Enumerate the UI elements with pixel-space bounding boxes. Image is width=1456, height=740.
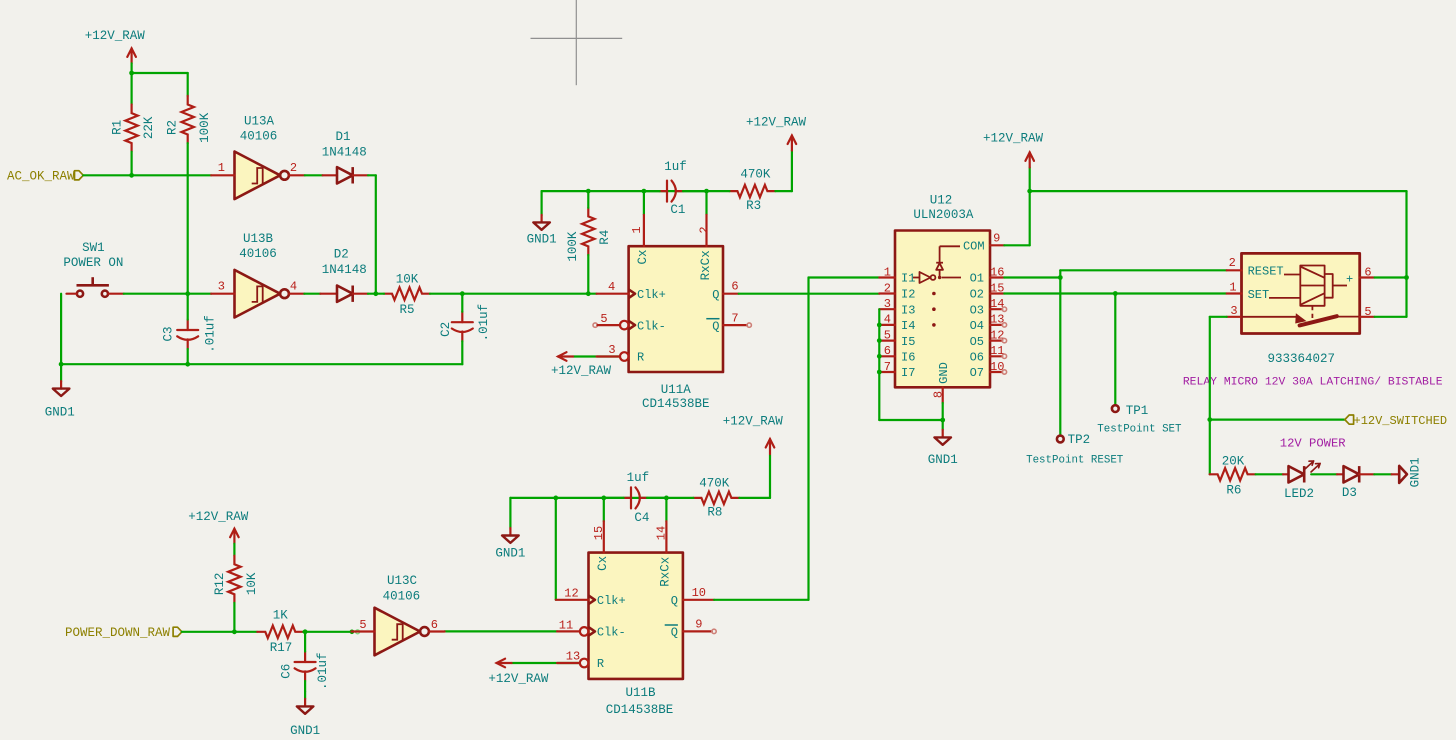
svg-text:1: 1 xyxy=(884,265,891,279)
svg-text:C3: C3 xyxy=(162,326,176,341)
pin 6 Q U11A xyxy=(712,280,738,302)
wire xyxy=(124,293,211,295)
svg-text:R3: R3 xyxy=(746,199,761,213)
global label AC_OK_RAW xyxy=(7,170,83,184)
power +12V_RAW P6 xyxy=(551,352,612,378)
svg-text:TestPoint SET: TestPoint SET xyxy=(1097,424,1182,436)
svg-text:+: + xyxy=(1346,272,1353,286)
diode D3 xyxy=(1337,466,1374,500)
wire xyxy=(376,293,463,295)
svg-text:3: 3 xyxy=(1230,304,1237,318)
svg-text:D1: D1 xyxy=(335,130,350,144)
svg-text:10K: 10K xyxy=(245,572,259,595)
junction xyxy=(586,189,591,194)
junction xyxy=(1058,275,1063,280)
pin 5 Clk- U11A xyxy=(593,312,666,333)
junction xyxy=(129,173,134,178)
U12 output pins O1-O7 xyxy=(970,265,1007,380)
svg-text:GND1: GND1 xyxy=(1409,457,1423,487)
pin 3 relay xyxy=(1227,304,1242,318)
svg-text:9: 9 xyxy=(695,618,702,632)
svg-text:U13B: U13B xyxy=(243,232,274,246)
svg-text:R17: R17 xyxy=(270,641,293,655)
svg-text:C1: C1 xyxy=(670,203,685,217)
svg-text:I5: I5 xyxy=(901,335,915,349)
ground GND1 u12 xyxy=(928,430,958,467)
inverter U13B xyxy=(235,232,289,318)
U12 internal dots xyxy=(932,292,936,327)
power +12V_RAW P7 xyxy=(488,659,549,686)
pin 4 U13B xyxy=(289,280,304,294)
junction xyxy=(877,323,882,375)
pin 5 U13C xyxy=(352,618,375,632)
svg-text:9: 9 xyxy=(993,232,1000,246)
wire xyxy=(1210,419,1345,421)
junction xyxy=(1113,291,1118,296)
svg-text:SW1: SW1 xyxy=(82,241,105,255)
pin 10 Q U11B xyxy=(671,586,714,608)
svg-text:6: 6 xyxy=(431,618,438,632)
ground GND1 u11a xyxy=(527,215,557,247)
global label +12V_SWITCHED xyxy=(1345,414,1447,428)
svg-text:22K: 22K xyxy=(142,116,156,139)
pin 15 Cx U11B xyxy=(592,498,610,571)
wire xyxy=(1114,294,1116,406)
svg-text:4: 4 xyxy=(884,313,891,327)
svg-text:R: R xyxy=(597,657,604,671)
svg-text:GND1: GND1 xyxy=(928,453,958,467)
junction xyxy=(59,362,64,367)
junction xyxy=(232,629,237,634)
svg-text:6: 6 xyxy=(1364,266,1371,280)
power +12V_RAW P4 xyxy=(723,415,784,498)
junction xyxy=(460,291,465,296)
relay switch xyxy=(1242,306,1360,326)
wire xyxy=(1004,292,1226,294)
pin 4 Clk+ U11A xyxy=(597,280,666,302)
svg-text:2: 2 xyxy=(290,161,297,175)
wire xyxy=(60,294,62,365)
inverter U13A xyxy=(235,115,289,199)
pin 1 SET relay xyxy=(1227,281,1301,303)
svg-text:O4: O4 xyxy=(970,319,984,333)
svg-text:C6: C6 xyxy=(279,664,293,679)
svg-text:933364027: 933364027 xyxy=(1268,352,1336,366)
svg-text:1: 1 xyxy=(630,226,644,233)
ground GND1 u11b xyxy=(495,528,525,561)
svg-text:U13A: U13A xyxy=(244,115,275,129)
resistor R12 xyxy=(213,556,259,603)
junction xyxy=(940,418,945,423)
junction xyxy=(129,71,134,76)
capacitor C1 xyxy=(644,160,707,217)
svg-text:POWER ON: POWER ON xyxy=(63,256,123,270)
wire xyxy=(132,73,188,96)
pin 11 Clk- U11B xyxy=(445,618,626,639)
svg-text:R1: R1 xyxy=(110,120,124,135)
sheet crosshair reference mark xyxy=(531,0,623,85)
wire xyxy=(83,174,211,176)
svg-text:1uf: 1uf xyxy=(627,471,650,485)
wire xyxy=(1004,276,1060,278)
junction xyxy=(704,189,709,194)
svg-text:C2: C2 xyxy=(439,322,453,337)
resistor R17 xyxy=(257,609,303,656)
wire xyxy=(304,293,320,295)
svg-text:15: 15 xyxy=(592,526,606,540)
svg-text:R2: R2 xyxy=(166,120,180,135)
svg-text:40106: 40106 xyxy=(383,590,421,604)
svg-text:Clk+: Clk+ xyxy=(597,594,626,608)
svg-text:12V POWER: 12V POWER xyxy=(1280,437,1346,451)
svg-text:AC_OK_RAW: AC_OK_RAW xyxy=(7,170,75,184)
svg-text:I4: I4 xyxy=(901,319,915,333)
svg-text:4: 4 xyxy=(608,280,615,294)
svg-text:6: 6 xyxy=(731,280,738,294)
U12 internal darlington xyxy=(913,272,961,283)
svg-text:+12V_RAW: +12V_RAW xyxy=(983,132,1044,146)
wire xyxy=(187,143,189,294)
svg-text:+12V_RAW: +12V_RAW xyxy=(85,29,146,43)
svg-text:GND1: GND1 xyxy=(527,232,557,246)
diode D2 xyxy=(320,248,368,302)
wire xyxy=(303,631,351,633)
svg-text:U13C: U13C xyxy=(387,574,417,588)
svg-text:R8: R8 xyxy=(707,506,722,520)
svg-text:GND1: GND1 xyxy=(45,406,75,420)
svg-text:5: 5 xyxy=(884,328,891,342)
wire xyxy=(182,631,257,633)
pin 1 U13A xyxy=(211,161,234,175)
svg-text:R5: R5 xyxy=(399,303,414,317)
ground GND1 c6 xyxy=(290,692,320,738)
power +12V_RAW P2 xyxy=(746,115,807,191)
svg-text:1N4148: 1N4148 xyxy=(322,145,367,159)
svg-text:I7: I7 xyxy=(901,366,915,380)
svg-text:TP2: TP2 xyxy=(1068,433,1091,447)
relay coil xyxy=(1300,266,1324,306)
svg-text:+12V_RAW: +12V_RAW xyxy=(746,115,807,129)
power +12V_RAW P5 xyxy=(188,510,249,544)
capacitor C4 xyxy=(604,471,667,525)
wire xyxy=(131,73,133,105)
wire xyxy=(368,175,376,293)
svg-text:1: 1 xyxy=(218,161,225,175)
svg-text:ULN2003A: ULN2003A xyxy=(913,208,974,222)
junction xyxy=(664,496,669,501)
relay value xyxy=(1268,352,1336,366)
svg-text:3: 3 xyxy=(218,280,225,294)
wire xyxy=(714,278,879,600)
switch SW1 xyxy=(63,241,123,297)
svg-text:D3: D3 xyxy=(1342,486,1357,500)
svg-text:.01uf: .01uf xyxy=(203,315,217,353)
resistor R5 xyxy=(384,272,430,317)
svg-text:GND1: GND1 xyxy=(495,547,525,561)
power GND1 right xyxy=(1392,457,1423,487)
svg-text:I1: I1 xyxy=(901,272,915,286)
svg-text:C4: C4 xyxy=(634,511,649,525)
svg-text:1K: 1K xyxy=(273,609,289,623)
svg-text:TestPoint RESET: TestPoint RESET xyxy=(1026,455,1124,467)
svg-text:Q: Q xyxy=(671,594,678,608)
wire xyxy=(1060,270,1226,277)
IC U12 body xyxy=(895,231,990,388)
svg-text:Clk+: Clk+ xyxy=(637,288,666,302)
svg-text:11: 11 xyxy=(559,618,573,632)
svg-text:4: 4 xyxy=(290,280,297,294)
svg-text:+12V_SWITCHED: +12V_SWITCHED xyxy=(1354,414,1448,428)
wire xyxy=(1030,190,1407,192)
relay coil sense rect xyxy=(1325,272,1354,297)
pin 3 U13B xyxy=(211,280,234,294)
svg-text:20K: 20K xyxy=(1222,455,1245,469)
test point TP1 xyxy=(1097,404,1182,436)
svg-text:I3: I3 xyxy=(901,303,915,317)
svg-text:100K: 100K xyxy=(566,231,580,262)
junction xyxy=(185,291,190,296)
svg-text:Cx: Cx xyxy=(596,556,610,571)
wire xyxy=(131,63,133,73)
pin 2 RESET relay xyxy=(1227,256,1301,279)
resistor R4 xyxy=(566,191,612,294)
svg-text:+12V_RAW: +12V_RAW xyxy=(551,364,612,378)
capacitor C6 xyxy=(279,632,330,692)
svg-text:CD14538BE: CD14538BE xyxy=(642,397,710,411)
svg-text:470K: 470K xyxy=(699,477,730,491)
test point TP2 xyxy=(1026,433,1124,466)
svg-text:O2: O2 xyxy=(970,288,984,302)
svg-text:I6: I6 xyxy=(901,351,915,365)
wire xyxy=(368,293,376,295)
U12 input pins I1-I7 xyxy=(879,265,915,380)
inverter U13C xyxy=(375,574,429,655)
IC U12 reference xyxy=(930,194,953,208)
wire xyxy=(1375,191,1407,317)
svg-text:R12: R12 xyxy=(213,573,227,596)
wire xyxy=(942,403,944,430)
svg-text:R4: R4 xyxy=(598,230,612,245)
svg-text:LED2: LED2 xyxy=(1284,487,1314,501)
svg-text:U11B: U11B xyxy=(625,686,656,700)
power +12V_RAW P3 xyxy=(983,132,1044,246)
wire xyxy=(1256,473,1283,475)
svg-text:2: 2 xyxy=(1229,256,1236,270)
IC U11A reference xyxy=(661,383,692,397)
wire xyxy=(1374,473,1391,475)
wire xyxy=(510,498,666,528)
svg-text:1uf: 1uf xyxy=(664,160,687,174)
svg-text:COM: COM xyxy=(963,240,985,254)
svg-text:Clk-: Clk- xyxy=(597,626,626,640)
wire xyxy=(555,498,557,600)
wire xyxy=(739,293,880,295)
wire xyxy=(1210,317,1227,475)
svg-text:+12V_RAW: +12V_RAW xyxy=(488,672,549,686)
resistor R2 xyxy=(166,96,213,143)
svg-text:U11A: U11A xyxy=(661,383,692,397)
pin 6 relay xyxy=(1360,266,1375,280)
svg-text:O5: O5 xyxy=(970,335,984,349)
svg-text:RxCx: RxCx xyxy=(659,557,673,587)
pin 5 relay xyxy=(1360,305,1375,319)
junction xyxy=(373,291,378,296)
svg-text:100K: 100K xyxy=(198,112,212,143)
svg-text:2: 2 xyxy=(884,281,891,295)
svg-text:5: 5 xyxy=(1364,305,1371,319)
svg-text:470K: 470K xyxy=(740,167,771,181)
relay K1 body xyxy=(1242,253,1360,333)
svg-text:7: 7 xyxy=(884,360,891,374)
svg-text:O7: O7 xyxy=(970,366,984,380)
svg-text:RELAY MICRO 12V 30A LATCHING/: RELAY MICRO 12V 30A LATCHING/ BISTABLE xyxy=(1183,376,1443,388)
ground GND1 sw xyxy=(45,364,75,419)
resistor R6 xyxy=(1210,455,1256,498)
svg-text:GND1: GND1 xyxy=(290,724,320,738)
svg-text:5: 5 xyxy=(359,618,366,632)
wire xyxy=(233,603,235,632)
svg-text:3: 3 xyxy=(608,343,615,357)
note 12V POWER xyxy=(1280,437,1346,451)
svg-text:10K: 10K xyxy=(396,272,419,286)
pin 9 COM U12 xyxy=(963,232,1004,254)
svg-text:U12: U12 xyxy=(930,194,953,208)
IC U11A body xyxy=(629,246,723,372)
svg-text:R: R xyxy=(637,351,644,365)
wire xyxy=(61,363,462,365)
capacitor C3 xyxy=(162,294,218,365)
wire xyxy=(879,309,942,420)
pin 8 GND U12 xyxy=(931,362,951,403)
svg-text:1: 1 xyxy=(1229,281,1236,295)
svg-text:40106: 40106 xyxy=(240,130,278,144)
pin 12 Clk+ U11B xyxy=(556,586,626,608)
pin 1 Cx U11A xyxy=(630,191,650,264)
svg-text:Clk-: Clk- xyxy=(637,319,666,333)
svg-text:+12V_RAW: +12V_RAW xyxy=(188,510,249,524)
svg-text:I2: I2 xyxy=(901,288,915,302)
junction xyxy=(586,291,591,296)
pin 14 RxCx U11B xyxy=(655,498,673,587)
power +12V_RAW P1 xyxy=(85,29,146,63)
svg-text:Q: Q xyxy=(712,288,719,302)
svg-text:40106: 40106 xyxy=(239,247,277,261)
svg-text:2: 2 xyxy=(698,226,712,233)
junction xyxy=(1404,275,1409,280)
svg-text:6: 6 xyxy=(884,344,891,358)
svg-text:7: 7 xyxy=(731,311,738,325)
wire xyxy=(131,152,133,176)
wire xyxy=(1311,473,1337,475)
pin 9 Qbar U11B xyxy=(665,618,717,640)
LED LED2 xyxy=(1283,461,1320,501)
svg-text:SET: SET xyxy=(1248,288,1270,302)
resistor R8 xyxy=(666,477,770,520)
pin 2 U13A xyxy=(289,161,305,175)
svg-text:R6: R6 xyxy=(1226,483,1241,497)
IC U11B reference xyxy=(625,686,656,700)
IC U11B body xyxy=(589,553,683,679)
pin 6 U13C xyxy=(429,618,444,632)
svg-text:D2: D2 xyxy=(334,248,349,262)
svg-text:POWER_DOWN_RAW: POWER_DOWN_RAW xyxy=(65,626,171,640)
svg-text:.01uf: .01uf xyxy=(477,304,491,342)
wire xyxy=(233,544,235,556)
svg-text:+12V_RAW: +12V_RAW xyxy=(723,415,784,429)
wire xyxy=(305,174,323,176)
global label POWER_DOWN_RAW xyxy=(65,626,182,640)
svg-text:1N4148: 1N4148 xyxy=(322,263,367,277)
resistor R3 xyxy=(707,167,792,213)
diode D1 xyxy=(322,130,368,184)
svg-text:12: 12 xyxy=(564,586,578,600)
svg-text:O3: O3 xyxy=(970,303,984,317)
svg-text:TP1: TP1 xyxy=(1126,404,1149,418)
U12 internal diode xyxy=(936,246,960,277)
junction xyxy=(303,629,308,634)
svg-text:CD14538BE: CD14538BE xyxy=(606,703,674,717)
wire xyxy=(542,191,707,215)
IC U11B value xyxy=(606,703,674,717)
svg-text:14: 14 xyxy=(655,526,669,540)
svg-text:O6: O6 xyxy=(970,351,984,365)
IC U11A value xyxy=(642,397,710,411)
pin 7 Qbar U11A xyxy=(706,311,751,333)
junction xyxy=(1207,417,1212,422)
resistor R1 xyxy=(110,105,156,152)
svg-text:3: 3 xyxy=(884,297,891,311)
wire end dot xyxy=(350,630,360,635)
wire xyxy=(462,293,596,295)
IC U12 value xyxy=(913,208,974,222)
junction xyxy=(185,362,190,367)
pin 2 RxCx U11A xyxy=(698,191,714,280)
svg-text:13: 13 xyxy=(566,650,580,664)
svg-text:RxCx: RxCx xyxy=(699,250,713,280)
svg-text:O1: O1 xyxy=(970,272,984,286)
junction xyxy=(642,189,647,194)
svg-text:5: 5 xyxy=(600,312,607,326)
svg-text:Q: Q xyxy=(671,626,678,640)
capacitor C2 xyxy=(439,294,491,365)
svg-text:Cx: Cx xyxy=(636,249,650,264)
svg-text:Q: Q xyxy=(712,319,719,333)
wire xyxy=(1059,278,1061,436)
junction xyxy=(1027,189,1032,194)
svg-text:GND: GND xyxy=(937,362,951,384)
svg-text:RESET: RESET xyxy=(1248,265,1284,279)
junction xyxy=(553,496,558,501)
pin 13 R U11B xyxy=(512,650,605,672)
svg-text:10: 10 xyxy=(692,586,706,600)
svg-text:8: 8 xyxy=(931,391,945,398)
junction xyxy=(601,496,606,501)
pin 3 R U11A xyxy=(573,343,644,365)
wire xyxy=(1375,276,1407,278)
note relay description xyxy=(1183,376,1443,388)
svg-text:.01uf: .01uf xyxy=(316,652,330,690)
